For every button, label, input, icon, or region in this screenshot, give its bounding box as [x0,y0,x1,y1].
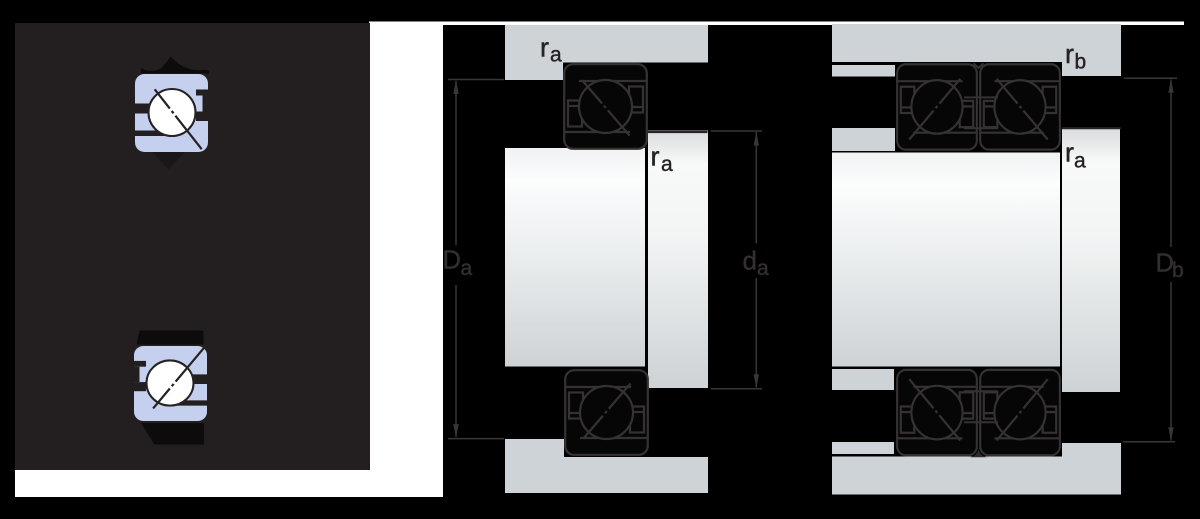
svg-text:r: r [1065,39,1074,69]
svg-text:r: r [1065,137,1074,167]
svg-text:D: D [443,247,461,275]
svg-text:a: a [550,43,562,66]
svg-text:b: b [1075,50,1087,73]
svg-text:r: r [540,33,549,63]
svg-text:a: a [461,257,473,280]
svg-text:r: r [651,142,660,172]
svg-text:d: d [743,246,757,276]
svg-text:b: b [1172,259,1184,282]
svg-text:a: a [661,153,673,176]
svg-text:a: a [757,257,769,280]
svg-text:a: a [1074,149,1086,172]
